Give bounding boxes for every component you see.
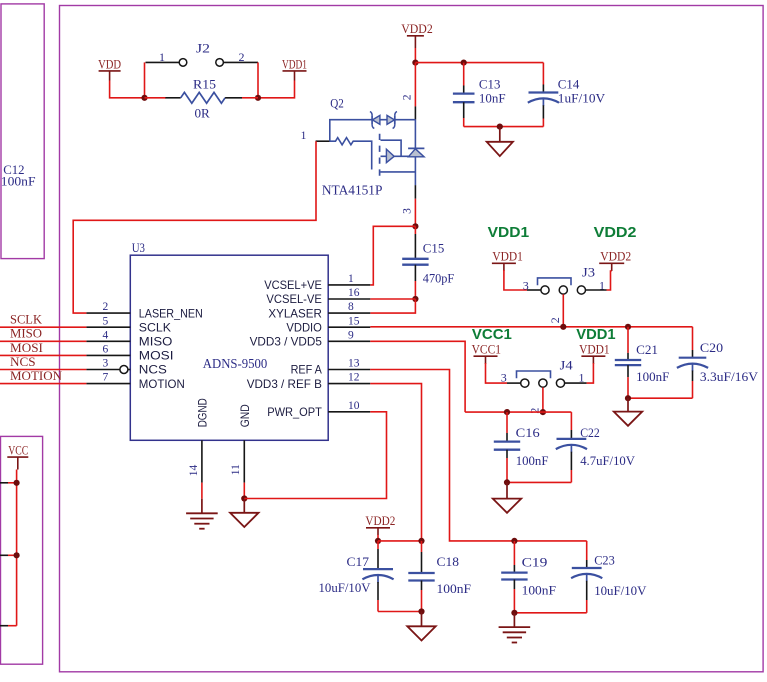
capacitor C16 label (516, 425, 541, 440)
capacitor C18 (408, 541, 434, 612)
capacitor C17 label (347, 554, 370, 569)
pin circle J3-2 (559, 286, 567, 294)
pin stub U3-10 PWR_OPT (328, 411, 370, 413)
pin number 1 of J3 (599, 278, 605, 292)
power flag VDD1 at J3 (492, 249, 523, 271)
svg-text:MOTION: MOTION (10, 369, 62, 383)
svg-text:5: 5 (103, 315, 109, 327)
svg-text:10uF/10V: 10uF/10V (319, 580, 372, 595)
svg-text:8: 8 (348, 301, 354, 313)
pin stub J4-3 (507, 382, 521, 384)
pin name LASER_NEN (139, 307, 203, 320)
svg-text:J4: J4 (560, 357, 574, 372)
pin stub U3-4 MISO (86, 340, 130, 342)
pin stub J3-1 (586, 289, 607, 291)
wire MOTION (0, 383, 86, 385)
ground symbol under C21 (614, 412, 642, 426)
pin name XYLASER (268, 307, 322, 320)
svg-text:1: 1 (301, 130, 307, 142)
earth ground stem C19 (513, 613, 515, 627)
wire R15 to node B (242, 97, 258, 99)
pin name MOTION (139, 378, 185, 391)
jumper J3 shunt bracket (538, 278, 572, 285)
ground symbol under C13 (487, 142, 513, 156)
junction ground node C16 (504, 479, 510, 485)
capacitor C21 value (636, 369, 669, 384)
wire VDD2 bottom rail (378, 540, 422, 542)
junction Q2-C15 node (412, 223, 418, 229)
wire VCC stub row2 (8, 554, 17, 556)
pin stub U3-2 LASER_NEN (86, 312, 130, 314)
capacitor C17 value (319, 580, 372, 595)
svg-text:VCC1: VCC1 (472, 326, 512, 343)
power flag VDD2 top (401, 21, 433, 48)
junction VCC row1 (14, 480, 20, 486)
wire GND down (243, 483, 245, 499)
pin number 12 (348, 372, 360, 384)
wire J2-2 down (257, 62, 259, 97)
svg-text:NCS: NCS (10, 355, 36, 369)
svg-text:VDD2: VDD2 (365, 513, 395, 528)
green label VDD2 (594, 224, 637, 241)
capacitor C14 (528, 85, 559, 119)
pin circle J4-1 (556, 379, 564, 387)
svg-text:J3: J3 (582, 265, 595, 280)
svg-text:XYLASER: XYLASER (268, 307, 322, 320)
wire MISO (0, 340, 86, 342)
pin stub row1 (0, 482, 8, 484)
capacitor C16 (494, 412, 520, 482)
svg-text:3: 3 (501, 371, 507, 385)
junction C16 top (504, 409, 510, 415)
net label NCS (10, 355, 36, 369)
pin stub Q2-3 (414, 185, 416, 199)
svg-text:DGND: DGND (197, 398, 210, 427)
wire VCC stub row3 (8, 625, 17, 627)
wire REF-B down (370, 384, 421, 541)
transistor Q2 label (330, 96, 344, 111)
earth ground stem DGND (201, 499, 203, 514)
svg-text:3.3uF/16V: 3.3uF/16V (700, 369, 759, 384)
pin circle J3-3 (541, 286, 549, 294)
pin circle J2-2 (216, 59, 224, 67)
svg-text:0R: 0R (195, 105, 211, 120)
pin circle J3-1 (577, 286, 585, 294)
pin name VDD3 / REF B (247, 378, 322, 391)
svg-text:VDD1: VDD1 (282, 56, 307, 71)
svg-text:14: 14 (188, 464, 200, 476)
wire Q2 pin3 down (414, 199, 416, 227)
U3 reference label (132, 240, 145, 255)
svg-text:1uF/10V: 1uF/10V (558, 91, 606, 106)
ground symbol under C16 (493, 499, 521, 513)
pin name VDD3 / VDD5 (250, 336, 323, 349)
svg-text:C13: C13 (479, 76, 501, 91)
svg-text:REF A: REF A (291, 364, 322, 377)
Q2 channel dashed line (379, 134, 381, 178)
junction node B (255, 95, 261, 101)
earth ground under DGND (186, 513, 218, 528)
wire J4 pin1 to VDD1 (587, 363, 594, 383)
svg-text:4.7uF/10V: 4.7uF/10V (580, 453, 635, 468)
resistor R15 body (181, 92, 225, 103)
wire XYLASER link (370, 299, 415, 313)
wire VDD2 down to Q2 pin2 (414, 63, 416, 107)
capacitor C19 label (522, 554, 548, 569)
pin number 4 (103, 329, 109, 341)
pin number 10 (348, 400, 360, 412)
pin stub U3-14 DGND (201, 440, 203, 482)
pin stub U3-1 VCSEL+VE (328, 284, 370, 286)
pin number 2 of J4 (528, 408, 542, 414)
wire VCC vertical bus (16, 470, 18, 626)
power flag VCC1 at J4 (472, 342, 501, 364)
pin number 16 (348, 287, 360, 299)
svg-text:MOSI: MOSI (10, 341, 43, 355)
wire VCC1 rail (465, 411, 571, 413)
capacitor C23 value (594, 583, 647, 598)
svg-text:VDD1: VDD1 (576, 326, 615, 343)
pin name PWR_OPT (267, 406, 322, 419)
svg-text:100nF: 100nF (522, 582, 556, 597)
svg-text:MOTION: MOTION (139, 378, 185, 391)
wire C14 bottom lead (542, 119, 544, 127)
pin name MISO (139, 336, 173, 349)
capacitor C15 label (423, 241, 445, 256)
wire C13-C14 bottom rail (464, 126, 544, 128)
pin stub U3-13 REF A (328, 369, 370, 371)
Q2 main vertical (414, 120, 416, 185)
capacitor C22 label (580, 425, 600, 440)
capacitor C13 label (479, 76, 501, 91)
wire J3 pin2 down (562, 294, 564, 327)
pin number 1 of Q2 (301, 130, 307, 142)
pin stub Q2-2 (414, 106, 416, 119)
capacitor C20 value (700, 369, 759, 384)
svg-text:MISO: MISO (139, 336, 173, 349)
svg-text:U3: U3 (132, 240, 145, 255)
capacitor C18 value (437, 581, 472, 596)
svg-text:C16: C16 (516, 425, 541, 440)
svg-text:12: 12 (348, 372, 360, 384)
cropped sub-sheet box top-left (C12) (1, 4, 44, 259)
svg-text:15: 15 (348, 315, 360, 327)
ground stem under C18 (421, 612, 423, 627)
ground stem under C13 (499, 127, 501, 142)
wire J2-1 down (144, 62, 146, 97)
jumper J3 label (582, 265, 595, 280)
pin number 2 of Q2 (402, 94, 414, 100)
pin circle J4-3 (521, 379, 529, 387)
junction node A (141, 95, 147, 101)
net label MISO (10, 327, 42, 341)
svg-text:10uF/10V: 10uF/10V (594, 583, 647, 598)
power flag VDD1 at J4 (579, 342, 610, 364)
ground stem under C16 (506, 482, 508, 498)
ground stem under GND (243, 499, 245, 513)
ground symbol under GND (230, 513, 258, 527)
svg-text:10: 10 (348, 400, 360, 412)
svg-text:VDD3 / VDD5: VDD3 / VDD5 (250, 336, 323, 349)
Q2 gate rail up (330, 120, 416, 142)
svg-text:100nF: 100nF (1, 174, 36, 189)
pin stub U3-9 VDD3 / VDD5 (328, 340, 370, 342)
wire C16-C22 bottom rail (507, 481, 571, 483)
wire VDD to node A (110, 81, 145, 98)
svg-text:4: 4 (103, 329, 109, 341)
svg-text:C18: C18 (437, 554, 460, 569)
pin number 2 of J3 (548, 317, 562, 323)
Q2 drain stub (381, 140, 402, 156)
resistor R15 value 0R (195, 105, 211, 120)
junction C15 bottom (412, 296, 418, 302)
capacitor C13 (453, 86, 475, 119)
capacitor C19 value (522, 582, 556, 597)
svg-text:J2: J2 (196, 41, 210, 56)
svg-text:PWR_OPT: PWR_OPT (267, 406, 322, 419)
pin number 2 of J2 (239, 50, 245, 64)
svg-text:C14: C14 (558, 76, 580, 91)
svg-text:3: 3 (402, 208, 414, 214)
pin number 1 (348, 273, 354, 285)
pin name VCSEL+VE (264, 279, 322, 292)
svg-text:MISO: MISO (10, 327, 42, 341)
pin stub row3 (0, 625, 8, 627)
junction C13 top (461, 60, 467, 66)
svg-text:7: 7 (103, 372, 109, 384)
svg-text:VDD2: VDD2 (401, 21, 433, 36)
svg-text:100nF: 100nF (437, 581, 472, 596)
op-amp U3 body ADNS-9500 (130, 255, 328, 440)
wire C13 top lead (463, 63, 465, 86)
junction J3-2 on VDDIO rail (560, 324, 566, 330)
svg-text:10nF: 10nF (479, 91, 506, 106)
svg-text:VDD2: VDD2 (600, 249, 631, 264)
pin stub U3-15 VDDIO (328, 326, 370, 328)
svg-text:11: 11 (230, 464, 242, 475)
wire VDD1 to J3 pin3 (504, 270, 527, 290)
Q2 gate zener left (370, 112, 380, 129)
Q2 gate resistor (330, 138, 372, 170)
jumper J4 shunt bracket (517, 371, 551, 378)
svg-text:VDD1: VDD1 (579, 342, 610, 357)
capacitor C23 label (594, 552, 615, 567)
pin name SCLK (139, 321, 171, 334)
svg-text:2: 2 (402, 94, 414, 100)
pin number 1 of J2 (159, 50, 165, 64)
power flag VDD2 bottom (365, 513, 395, 535)
Q2 body stub with arrow (381, 149, 416, 162)
svg-text:470pF: 470pF (423, 270, 454, 285)
svg-text:9: 9 (348, 329, 354, 341)
junction GND node (241, 495, 247, 501)
wire PWR_OPT to GND node (244, 412, 386, 499)
pin name VDDIO (286, 321, 322, 334)
wire LASER_NEN to Q2 gate (73, 141, 316, 313)
wire C14 top lead (542, 63, 544, 85)
wire VCSEL-VE to C15 (370, 298, 415, 300)
svg-text:VDD3 / REF B: VDD3 / REF B (247, 378, 322, 391)
cropped sub-sheet box bottom-left (VCC) (1, 436, 43, 664)
svg-text:SCLK: SCLK (10, 313, 42, 327)
transistor Q2 part name NTA4151P (322, 182, 383, 197)
svg-text:GND: GND (239, 404, 252, 427)
svg-text:1: 1 (348, 273, 354, 285)
jumper J2 label (196, 41, 210, 56)
svg-text:SCLK: SCLK (139, 321, 171, 334)
svg-text:VCSEL-VE: VCSEL-VE (266, 293, 322, 306)
pin stub U3-12 VDD3 / REF B (328, 383, 370, 385)
pin stub U3-11 GND (243, 440, 245, 482)
wire DGND down (201, 483, 203, 499)
resistor R15 label (193, 76, 216, 91)
svg-text:R15: R15 (193, 76, 216, 91)
wire VDD3/VDD5 to VCC1 rail (370, 341, 465, 412)
wire VDD2 stem bottom (377, 535, 379, 541)
capacitor C17 (362, 541, 393, 612)
svg-text:VCSEL+VE: VCSEL+VE (264, 279, 322, 292)
wire SCLK (0, 326, 86, 328)
svg-text:C17: C17 (347, 554, 370, 569)
pin name MOSI (139, 350, 174, 363)
pin number 8 (348, 301, 354, 313)
svg-text:C20: C20 (700, 340, 723, 355)
junction ground node C13 (497, 124, 503, 130)
power flag VDD1 (282, 56, 307, 80)
pin number 15 (348, 315, 360, 327)
wire VCC stub row1 (8, 482, 17, 484)
pin stub row2 (0, 554, 8, 556)
svg-text:VDD1: VDD1 (488, 224, 529, 241)
pin number 13 (348, 358, 360, 370)
pin stub U3-5 SCLK (86, 326, 130, 328)
pin stub U3-3 NCS with inversion bubble (86, 366, 130, 374)
svg-text:VDD: VDD (98, 56, 121, 71)
net label MOTION (10, 369, 62, 383)
pin stub J4-1 (565, 382, 587, 384)
pin stub U3-6 MOSI (86, 354, 130, 356)
wire VCC1 to J4 pin3 (486, 363, 508, 383)
net label MOSI (10, 341, 43, 355)
svg-text:VDD2: VDD2 (594, 224, 637, 241)
svg-text:100nF: 100nF (516, 453, 549, 468)
capacitor C20 label (700, 340, 723, 355)
wire VDD2 rail (415, 62, 543, 64)
power flag VCC (7, 443, 28, 470)
junction J4-2 on VCC1 rail (540, 409, 546, 415)
svg-text:C15: C15 (423, 241, 445, 256)
pin stub U3-16 VCSEL-VE (328, 298, 370, 300)
svg-text:Q2: Q2 (330, 96, 344, 111)
pin circle J4-2 (539, 379, 547, 387)
wire C17-C18 bottom rail (378, 611, 422, 613)
capacitor C18 label (437, 554, 460, 569)
pin stub J2-2 (224, 61, 258, 63)
svg-text:3: 3 (103, 358, 109, 370)
ground symbol under C18 (407, 626, 435, 640)
capacitor C15 value (423, 270, 454, 285)
Q2 source stub (381, 171, 416, 173)
power flag VDD2 at J3 (599, 249, 631, 271)
svg-text:C19: C19 (522, 554, 548, 569)
capacitor C22 (556, 412, 587, 482)
pin number 1 of J4 (579, 371, 585, 385)
pin stub J2-1 (146, 61, 180, 63)
green label VDD1 second (576, 326, 615, 343)
Q2 body diode (408, 148, 424, 156)
pin number 9 (348, 329, 354, 341)
resistor R15 lead right (225, 97, 242, 99)
svg-text:VDDIO: VDDIO (286, 321, 322, 334)
capacitor C13 value (479, 91, 506, 106)
svg-text:100nF: 100nF (636, 369, 669, 384)
pin stub U3-8 XYLASER (328, 312, 370, 314)
svg-text:C23: C23 (594, 552, 615, 567)
svg-text:2: 2 (103, 301, 109, 313)
net label SCLK (10, 313, 42, 327)
pin circle J2-1 (179, 59, 187, 67)
earth ground under C19 (499, 627, 531, 642)
svg-text:NCS: NCS (139, 364, 167, 377)
svg-text:VDD1: VDD1 (492, 249, 523, 264)
svg-text:16: 16 (348, 287, 360, 299)
svg-text:LASER_NEN: LASER_NEN (139, 307, 203, 320)
power flag VDD (98, 56, 121, 80)
junction C21 top (625, 324, 631, 330)
capacitor C19 (501, 541, 527, 613)
pin stub J3-3 (527, 289, 541, 291)
capacitor C12 label (1, 162, 36, 189)
pin name NCS (139, 364, 167, 377)
capacitor C14 value (558, 91, 606, 106)
junction ground node C18 (418, 608, 424, 614)
svg-text:VCC1: VCC1 (472, 342, 501, 357)
U3 part name (203, 357, 267, 372)
pin name GND (239, 404, 252, 427)
pin number 3 of J3 (523, 278, 529, 292)
pin number 3 of Q2 (402, 208, 414, 214)
pin name VCSEL-VE (266, 293, 322, 306)
svg-text:C22: C22 (580, 425, 600, 440)
capacitor C21 (615, 327, 641, 398)
resistor R15 lead left (165, 97, 180, 99)
capacitor C21 label (636, 342, 658, 357)
wire C13 bottom lead (463, 118, 465, 127)
pin stub U3-7 MOTION (86, 383, 130, 385)
capacitor C23 (571, 541, 602, 613)
junction C18 top (418, 538, 424, 544)
wire MOSI (0, 354, 86, 356)
svg-text:C21: C21 (636, 342, 658, 357)
svg-text:VCC: VCC (8, 443, 28, 458)
wire VDD2 stem (414, 48, 416, 63)
pin number 7 (103, 372, 109, 384)
pin stub Q2-1 gate (316, 140, 330, 142)
wire NCS (0, 369, 86, 371)
junction ground node C21 (625, 395, 631, 401)
junction ground node C19 (511, 610, 517, 616)
green label VDD1 (488, 224, 529, 241)
svg-text:ADNS-9500: ADNS-9500 (203, 357, 267, 372)
capacitor C20 (677, 327, 708, 398)
wire VDD1 to node B (258, 81, 295, 98)
svg-text:NTA4151P: NTA4151P (322, 182, 383, 197)
wire VDDIO rail (370, 326, 692, 328)
ground stem under C21 (627, 398, 629, 411)
svg-text:MOSI: MOSI (139, 350, 174, 363)
pin number 3 of J4 (501, 371, 507, 385)
pin number 3 (103, 358, 109, 370)
